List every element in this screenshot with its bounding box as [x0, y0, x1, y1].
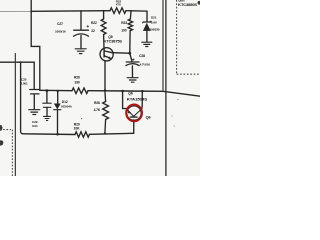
wire top rail right + corner down to D21 [126, 11, 147, 22]
wire left vertical to bottom rail [21, 62, 23, 134]
svg-text:C28: C28 [139, 54, 145, 58]
wire bottom rail right [89, 133, 133, 134]
svg-text:1N5239: 1N5239 [150, 27, 160, 31]
wire vertical left rail with jog [31, 0, 40, 90]
transistor Q5 base bar [103, 49, 105, 57]
node left wire / vertical drop [20, 61, 22, 63]
transistor Q5 collector line [104, 51, 112, 53]
node mid rail / Q6 base drop [121, 90, 124, 93]
node bottom rail / R28 [104, 132, 106, 134]
wire Q6 base drop from rail [123, 91, 128, 109]
wire Q5 collector to C28 node [112, 52, 130, 55]
svg-text:R28: R28 [94, 101, 100, 105]
diode D12 cathode bar [54, 109, 61, 111]
svg-text:R26: R26 [74, 76, 80, 80]
transistor Q6 emitter line [127, 110, 133, 117]
capacitor C27 plates [74, 29, 89, 31]
capacitor C27 leads [80, 11, 82, 48]
Q6 emitter arrow [128, 110, 131, 113]
resistor R22 470 (horizontal, top) [110, 8, 126, 14]
svg-text:KTC3875S: KTC3875S [104, 40, 123, 44]
capacitor C25 lead bottom [33, 94, 35, 109]
dashed box top right [177, 0, 200, 74]
resistor R26 330 zigzag [72, 88, 88, 94]
zener D21 triangle [143, 23, 151, 31]
annotation red circle around Q6 [126, 105, 142, 122]
wire right border double line left [162, 0, 164, 91]
C28 plus sign [132, 58, 134, 60]
wire right border double line right [165, 0, 167, 176]
smudge top right corner [198, 1, 201, 5]
svg-text:330: 330 [75, 80, 81, 84]
resistor R23 100 zigzag [128, 19, 132, 31]
wire bottom rail left [23, 133, 75, 136]
capacitor C29 lead bottom [46, 108, 48, 116]
svg-text:R22: R22 [91, 21, 97, 25]
capacitor C28 lead top [130, 53, 132, 61]
resistor R28 leads [104, 91, 107, 134]
capacitor C29 lead [46, 91, 48, 103]
transistor Q6 collector line [134, 109, 142, 117]
svg-text:4.7K: 4.7K [94, 108, 101, 112]
zener diode D21 cathode bar [143, 21, 151, 23]
node mid rail / Q6 top lead [141, 90, 143, 92]
wire top rail [31, 10, 110, 13]
svg-text:KTA1504S: KTA1504S [127, 98, 148, 102]
wire top rail faint left [0, 10, 31, 12]
svg-text:0.01: 0.01 [32, 124, 38, 128]
ground (C27) [75, 49, 86, 54]
transistor Q5 emitter line [104, 56, 110, 59]
Q5 emitter arrow [108, 56, 111, 59]
svg-text:Q6: Q6 [128, 92, 133, 96]
node top rail / R24 [103, 10, 105, 12]
wire mid rail right [88, 91, 200, 97]
diode D12 leads [57, 91, 59, 134]
svg-text:C27: C27 [57, 22, 63, 26]
svg-text:0.001: 0.001 [21, 82, 29, 86]
specks [81, 118, 82, 119]
svg-text:1000/16: 1000/16 [55, 30, 66, 34]
capacitor C28 lead bottom [131, 66, 133, 77]
node top rail / R23 [130, 10, 132, 12]
transistor Q6 base bar [130, 116, 137, 118]
capacitor C25 plates [30, 90, 40, 94]
svg-text:D12: D12 [62, 100, 68, 104]
resistor R24 22 (vertical) leads [103, 11, 105, 49]
svg-text:470: 470 [116, 3, 121, 7]
node top rail / left vertical [30, 11, 32, 13]
svg-text:KTC3880S: KTC3880S [178, 3, 198, 7]
paper background [0, 0, 200, 176]
svg-text:KD504A: KD504A [61, 105, 73, 109]
zener diode D21 leads [146, 31, 148, 42]
transistor Q6 circle [127, 106, 141, 120]
resistor R29 10K zigzag [75, 132, 89, 137]
wire Q6 top lead to rail [141, 91, 144, 109]
wire mid rail left [40, 89, 72, 91]
svg-text:22: 22 [91, 29, 95, 33]
resistor R24 22 zigzag [101, 19, 106, 35]
resistor R23 100 leads [130, 11, 131, 53]
svg-text:R23: R23 [121, 21, 127, 25]
ground (C28) [127, 78, 138, 83]
transistor Q5 circle [100, 48, 113, 61]
svg-text:4.7U/16: 4.7U/16 [140, 63, 151, 67]
C27 plus sign [87, 25, 89, 27]
svg-text:Q5: Q5 [108, 35, 113, 39]
wire left border solid [14, 54, 16, 176]
ground (C29) [44, 116, 51, 120]
resistor R28 4.7K zigzag [103, 102, 109, 120]
smudge left edge lower [0, 140, 3, 146]
node mid rail / C29 [46, 89, 49, 92]
node top rail / C27 [80, 10, 82, 12]
ground (C25) [29, 110, 40, 115]
diode D12 triangle [54, 104, 61, 110]
svg-text:8.9V: 8.9V [151, 21, 158, 25]
node mid rail / D12 [57, 90, 59, 92]
node bottom rail / D12 [56, 133, 59, 136]
wire left upper [0, 62, 34, 89]
node Q5 collector / R23 / C28 [128, 52, 131, 55]
wire Q5 emitter down to mid rail [104, 61, 106, 91]
wire Q6 collector down to bottom rail [133, 120, 135, 133]
svg-text:100: 100 [121, 28, 127, 32]
svg-text:D21: D21 [151, 15, 157, 19]
smudge left edge upper [0, 125, 3, 131]
svg-text:10K: 10K [74, 127, 81, 131]
capacitor C29 plates [43, 103, 51, 107]
dashed box bottom left [0, 130, 12, 176]
ground (D21) [142, 42, 152, 46]
node mid rail / Q5 emitter / R28 [104, 89, 106, 91]
capacitor C28 plates [126, 61, 139, 63]
